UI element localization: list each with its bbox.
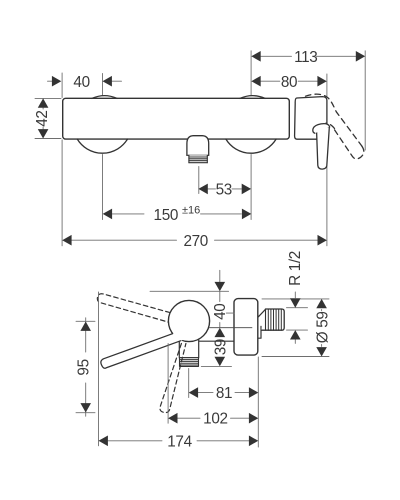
- svg-text:102: 102: [203, 411, 227, 428]
- lever handle open position (dashed): [306, 94, 364, 159]
- wall flange: [234, 299, 258, 356]
- svg-text:95: 95: [75, 359, 92, 375]
- cone to thread: [258, 309, 266, 317]
- outlet block side view: [179, 336, 198, 366]
- ext 39 bottom / outlet bottom: [201, 365, 231, 367]
- arrows top view: [38, 51, 365, 246]
- 270: [62, 235, 71, 246]
- dim 270 line: [72, 239, 177, 241]
- svg-text:40: 40: [73, 74, 89, 91]
- dim line 40/39 x220: [219, 270, 221, 289]
- 95: [80, 322, 91, 331]
- right escutcheon lower arc: [226, 139, 276, 153]
- left escutcheon top bump: [92, 96, 117, 99]
- shower outlet dome: [187, 136, 209, 156]
- dim 42 line: [42, 107, 44, 109]
- 174: [99, 436, 108, 447]
- mixer body bar: [63, 98, 290, 139]
- ext 95: [76, 320, 95, 322]
- Ø59: [316, 299, 327, 308]
- arrows side view: [80, 282, 327, 446]
- extension line x251 (right escutcheon centre): [250, 51, 252, 96]
- labels side view: [75, 251, 331, 450]
- 102: [168, 413, 177, 424]
- dim 53 line: [208, 188, 216, 190]
- dim 40 tails: [48, 80, 53, 82]
- dashed lever up position: [97, 294, 170, 322]
- extension line x327 (end cap): [326, 74, 328, 97]
- svg-text:40: 40: [212, 304, 229, 320]
- 80: [251, 76, 260, 87]
- dimension labels top view: [34, 49, 318, 250]
- svg-text:80: 80: [281, 74, 297, 91]
- 40 outside arrows: [215, 282, 226, 291]
- svg-text:39: 39: [213, 339, 230, 355]
- pipe bottom edge: [199, 340, 234, 342]
- svg-text:42: 42: [34, 110, 51, 126]
- R 1/2 outside arrows: [290, 298, 301, 307]
- left escutcheon lower arc: [77, 139, 127, 153]
- ext 40 top: [150, 290, 229, 292]
- extension lines for 42: [35, 97, 61, 99]
- svg-text:R 1/2: R 1/2: [287, 251, 304, 286]
- 81: [189, 387, 198, 398]
- Ø59: [262, 298, 329, 300]
- 174: [98, 292, 100, 446]
- svg-text:113: 113: [294, 49, 317, 66]
- right escutcheon top bump: [240, 96, 265, 99]
- extension line left x62: [35, 51, 365, 246]
- 81: [188, 369, 190, 398]
- R 1/2: [294, 292, 296, 298]
- svg-text:150: 150: [154, 207, 178, 224]
- dashed lever down position: [160, 344, 186, 413]
- handle escutcheon cap: [295, 97, 327, 140]
- extension line x365 (handle tip): [364, 51, 366, 150]
- 102: [167, 344, 169, 424]
- wall thread R1/2: [261, 309, 284, 330]
- svg-text:±16: ±16: [182, 205, 200, 217]
- extension line outlet centre x198.8: [198, 167, 200, 194]
- lever handle (closed position): [317, 127, 330, 169]
- 40 (outside arrows): [52, 76, 61, 87]
- solid lever side view: [101, 332, 186, 369]
- ext tick at flange: [226, 312, 234, 314]
- lever collar: [313, 124, 330, 134]
- svg-text:81: 81: [216, 385, 232, 402]
- 53: [198, 184, 207, 195]
- handle boss circle: [168, 300, 209, 341]
- dim 150 line: [112, 213, 144, 215]
- 113: [251, 51, 260, 62]
- dim 80 line: [261, 80, 280, 82]
- 39 bottom arrow: [215, 357, 226, 366]
- svg-text:Ø 59: Ø 59: [315, 311, 332, 343]
- 150: [103, 209, 112, 220]
- pipe axis line: [210, 327, 252, 329]
- 42: [38, 98, 49, 107]
- dim 113 line: [261, 55, 292, 57]
- svg-text:270: 270: [183, 233, 207, 250]
- extension line x102.5 (left escutcheon centre): [102, 74, 104, 96]
- svg-text:174: 174: [167, 433, 192, 450]
- step under thread: [258, 326, 261, 338]
- svg-text:53: 53: [216, 182, 232, 199]
- outlet threaded nipple: [189, 155, 207, 162]
